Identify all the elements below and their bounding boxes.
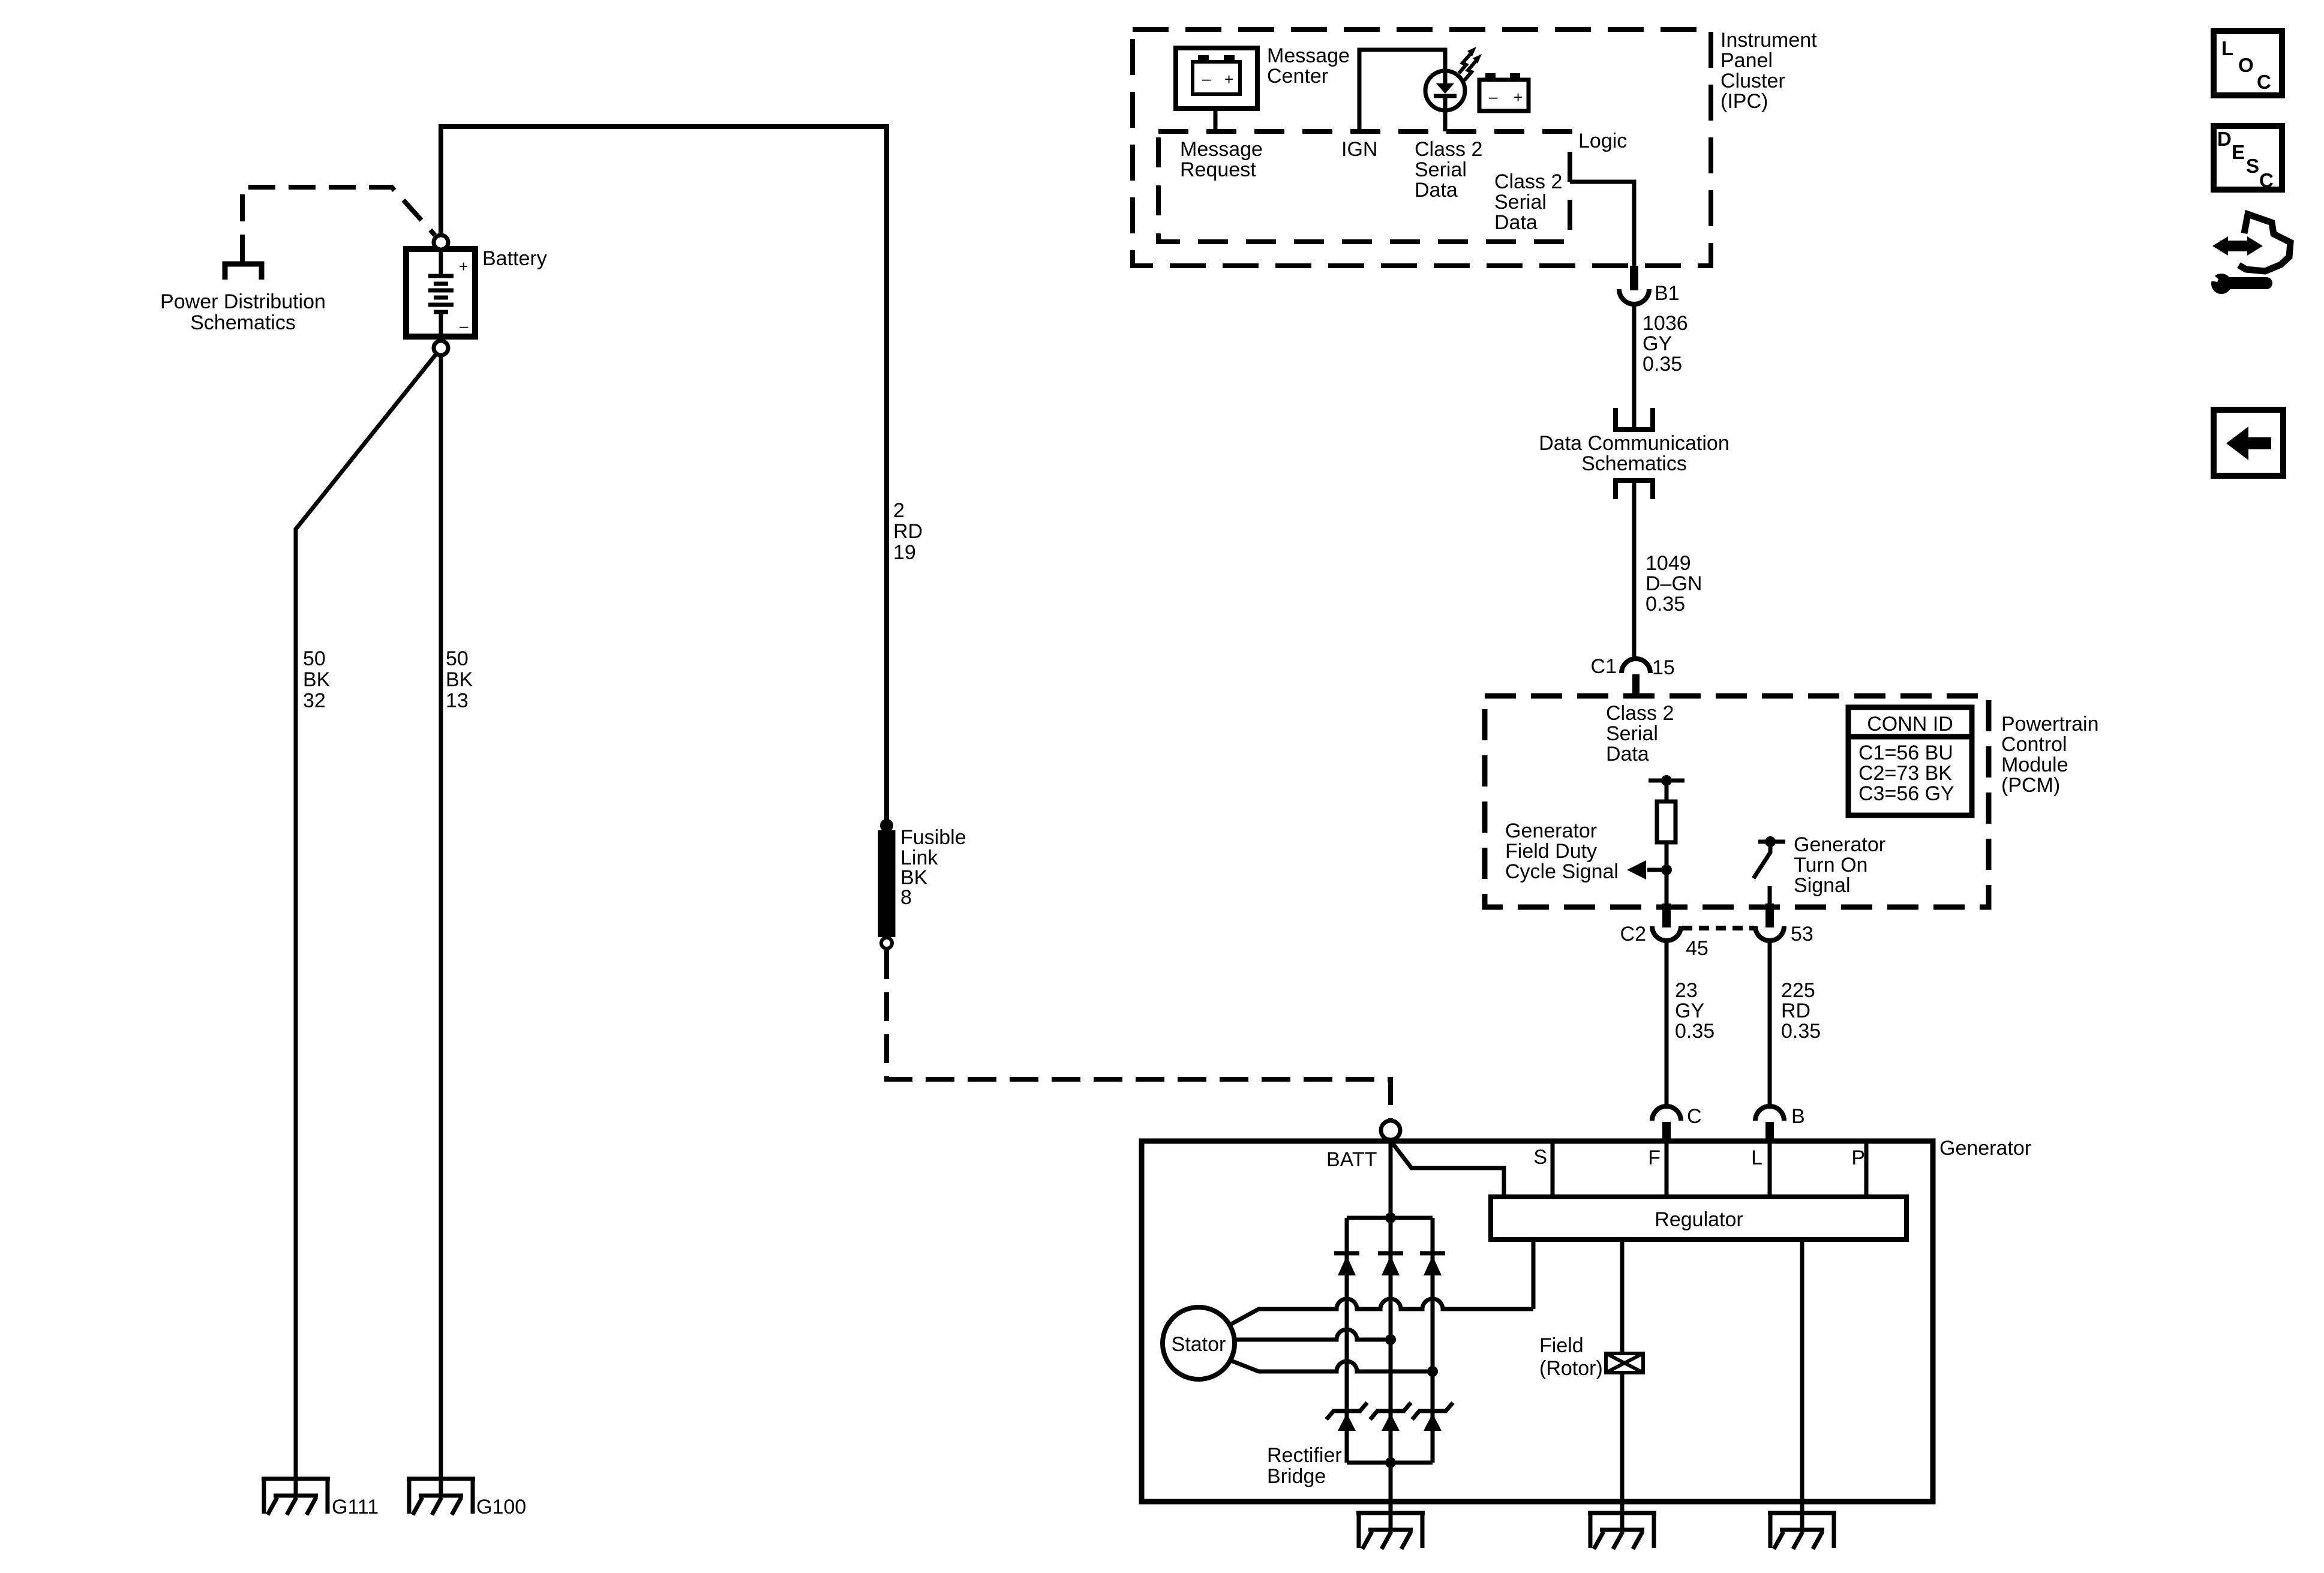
svg-text:0.35: 0.35 xyxy=(1646,593,1685,616)
svg-text:Cluster: Cluster xyxy=(1721,70,1785,92)
svg-text:Center: Center xyxy=(1267,65,1328,88)
svg-text:–: – xyxy=(460,317,469,335)
svg-text:RD: RD xyxy=(893,520,923,543)
svg-text:BATT: BATT xyxy=(1326,1148,1377,1171)
svg-text:Generator: Generator xyxy=(1505,819,1597,842)
svg-text:C: C xyxy=(1687,1105,1702,1128)
svg-text:P: P xyxy=(1851,1146,1865,1169)
svg-text:IGN: IGN xyxy=(1341,138,1377,161)
svg-text:Battery: Battery xyxy=(482,247,547,270)
svg-text:Data Communication: Data Communication xyxy=(1539,432,1729,455)
svg-text:G111: G111 xyxy=(332,1496,379,1518)
svg-text:Bridge: Bridge xyxy=(1267,1465,1326,1488)
svg-text:C: C xyxy=(2259,169,2274,191)
svg-text:(Rotor): (Rotor) xyxy=(1539,1357,1603,1380)
svg-text:Class 2: Class 2 xyxy=(1494,170,1562,193)
svg-text:1036: 1036 xyxy=(1643,312,1688,335)
svg-text:S: S xyxy=(1533,1146,1547,1169)
svg-text:(PCM): (PCM) xyxy=(2001,774,2060,797)
svg-text:Request: Request xyxy=(1180,158,1256,181)
svg-text:225: 225 xyxy=(1781,979,1815,1002)
svg-text:15: 15 xyxy=(1652,656,1675,679)
svg-text:Data: Data xyxy=(1606,743,1649,766)
svg-text:L: L xyxy=(1751,1146,1762,1169)
svg-text:B1: B1 xyxy=(1655,282,1680,305)
svg-text:Message: Message xyxy=(1267,44,1350,67)
svg-text:Regulator: Regulator xyxy=(1655,1208,1743,1231)
svg-text:C2=73 BK: C2=73 BK xyxy=(1858,762,1952,785)
svg-text:Schematics: Schematics xyxy=(1581,452,1687,475)
svg-text:13: 13 xyxy=(446,689,469,712)
svg-text:Stator: Stator xyxy=(1172,1333,1226,1356)
svg-text:GY: GY xyxy=(1643,332,1672,355)
svg-text:C2: C2 xyxy=(1620,923,1646,945)
svg-text:Generator: Generator xyxy=(1794,833,1885,856)
svg-text:23: 23 xyxy=(1675,979,1698,1002)
svg-text:8: 8 xyxy=(900,886,912,909)
svg-text:Instrument: Instrument xyxy=(1721,29,1817,52)
svg-text:0.35: 0.35 xyxy=(1643,353,1682,376)
svg-text:0.35: 0.35 xyxy=(1675,1020,1715,1043)
svg-text:BK: BK xyxy=(446,668,473,691)
svg-text:Field: Field xyxy=(1539,1334,1584,1357)
svg-text:0.35: 0.35 xyxy=(1781,1020,1821,1043)
svg-text:Serial: Serial xyxy=(1415,158,1467,181)
svg-text:Serial: Serial xyxy=(1494,191,1547,214)
svg-text:C1=56 BU: C1=56 BU xyxy=(1858,742,1953,764)
svg-text:+: + xyxy=(459,257,468,275)
svg-text:D–GN: D–GN xyxy=(1646,572,1702,595)
svg-text:Data: Data xyxy=(1415,179,1458,202)
svg-text:+: + xyxy=(1514,88,1523,106)
svg-text:C: C xyxy=(2257,71,2271,93)
svg-text:Cycle Signal: Cycle Signal xyxy=(1505,860,1619,883)
svg-text:Power Distribution: Power Distribution xyxy=(160,290,326,313)
svg-text:D: D xyxy=(2217,128,2232,150)
svg-text:RD: RD xyxy=(1781,999,1810,1022)
svg-text:F: F xyxy=(1648,1146,1661,1169)
svg-text:Class 2: Class 2 xyxy=(1606,702,1674,725)
svg-text:Schematics: Schematics xyxy=(190,311,296,334)
svg-text:Message: Message xyxy=(1180,138,1263,161)
svg-text:32: 32 xyxy=(303,689,326,712)
svg-text:50: 50 xyxy=(446,647,469,670)
svg-text:Module: Module xyxy=(2001,754,2068,776)
svg-text:Logic: Logic xyxy=(1578,130,1627,152)
svg-text:19: 19 xyxy=(893,541,916,564)
svg-text:2: 2 xyxy=(893,499,905,522)
svg-text:Control: Control xyxy=(2001,733,2067,756)
svg-text:Data: Data xyxy=(1494,211,1538,234)
svg-text:S: S xyxy=(2246,155,2259,177)
svg-text:53: 53 xyxy=(1791,923,1813,945)
svg-text:E: E xyxy=(2232,141,2245,163)
svg-text:(IPC): (IPC) xyxy=(1721,90,1768,113)
svg-text:Powertrain: Powertrain xyxy=(2001,713,2099,736)
svg-text:Class 2: Class 2 xyxy=(1415,138,1482,161)
svg-text:C1: C1 xyxy=(1591,655,1617,678)
svg-text:50: 50 xyxy=(303,647,326,670)
svg-text:GY: GY xyxy=(1675,999,1704,1022)
svg-text:–: – xyxy=(1202,70,1211,88)
svg-text:Panel: Panel xyxy=(1721,49,1773,72)
svg-text:Generator: Generator xyxy=(1939,1137,2031,1160)
svg-text:Field Duty: Field Duty xyxy=(1505,840,1597,863)
svg-text:Serial: Serial xyxy=(1606,722,1658,745)
svg-text:Turn On: Turn On xyxy=(1794,854,1867,876)
svg-text:1049: 1049 xyxy=(1646,552,1691,575)
svg-text:BK: BK xyxy=(303,668,331,691)
svg-text:L: L xyxy=(2221,37,2233,59)
svg-text:+: + xyxy=(1224,70,1233,88)
svg-text:45: 45 xyxy=(1686,937,1709,960)
svg-text:–: – xyxy=(1489,88,1498,106)
svg-text:O: O xyxy=(2238,54,2254,76)
svg-text:G100: G100 xyxy=(476,1496,526,1518)
svg-text:Rectifier: Rectifier xyxy=(1267,1444,1342,1467)
svg-text:Signal: Signal xyxy=(1794,874,1851,897)
svg-text:C3=56 GY: C3=56 GY xyxy=(1858,782,1954,805)
svg-text:B: B xyxy=(1791,1105,1805,1128)
svg-text:Fusible: Fusible xyxy=(900,826,966,849)
svg-text:CONN ID: CONN ID xyxy=(1867,713,1953,736)
